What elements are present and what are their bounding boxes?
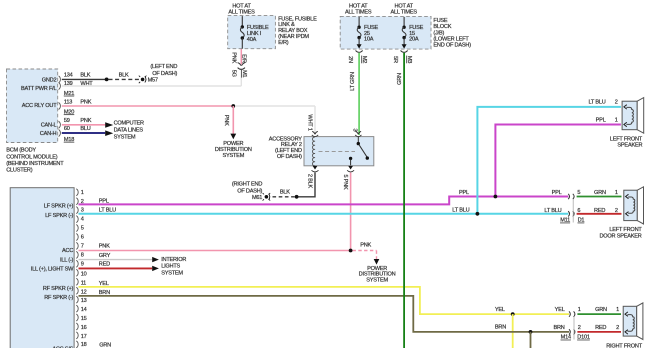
wire BLU CAN-H to computer data lines arrow (62, 126, 113, 136)
svg-text:40A: 40A (247, 37, 257, 43)
relay coil between pin 1 and pin 2 (312, 137, 315, 166)
svg-text:BLK: BLK (80, 72, 90, 78)
wire BRN drop off page (530, 332, 532, 348)
relay mechanical link (dashed) (319, 151, 356, 153)
svg-text:12: 12 (81, 289, 87, 295)
svg-text:GRN: GRN (595, 307, 607, 313)
BCM pin ACC RLY OUT (22, 100, 75, 116)
LF speaker pin 1 label (596, 117, 618, 123)
svg-text:M14: M14 (561, 335, 571, 341)
svg-text:PPL: PPL (552, 190, 562, 196)
svg-text:LF SPKR (-): LF SPKR (-) (45, 213, 73, 219)
svg-text:SYSTEM: SYSTEM (222, 153, 244, 159)
svg-text:(J/B): (J/B) (433, 30, 444, 36)
svg-text:ACC: ACC (62, 248, 73, 254)
wire GRY radio pin 8 to interior lights arrow (79, 253, 159, 263)
wire LT GRN fuse 25 to accessory relay pin 3 (350, 53, 359, 135)
power distribution system label 2 (359, 266, 396, 284)
wire PNK dashed arrow to power distribution system 2 (353, 242, 380, 264)
svg-text:OF DASH): OF DASH) (237, 189, 262, 195)
wire GRN to RF door speaker pin 1 (577, 307, 621, 314)
wire PNK connector M1 up to fusible link box (240, 49, 242, 65)
svg-text:PNK: PNK (80, 118, 91, 124)
svg-text:BRN: BRN (553, 325, 564, 331)
splice junction YEL (511, 312, 515, 316)
splice junction on BLK wire (105, 78, 109, 82)
svg-text:59: 59 (64, 118, 70, 124)
svg-text:LT GRN: LT GRN (350, 72, 356, 91)
svg-text:(RIGHT END: (RIGHT END (232, 181, 263, 187)
svg-text:ALL TIMES: ALL TIMES (228, 10, 255, 16)
radio pin 3 LF SPKR (-) (45, 207, 84, 219)
svg-text:BLOCK: BLOCK (433, 24, 451, 30)
fuse, fusible link and relay box (dashed) (228, 16, 276, 49)
svg-text:CLUSTER): CLUSTER) (6, 168, 33, 174)
svg-text:LEFT FRONT: LEFT FRONT (610, 136, 643, 142)
relay switch pin 5 contact (349, 157, 352, 160)
radio pin 14 (76, 305, 86, 313)
svg-text:M18: M18 (64, 137, 74, 143)
radio pin 13 (76, 296, 86, 304)
svg-text:RF SPKR (-): RF SPKR (-) (44, 295, 73, 301)
svg-text:M3: M3 (406, 56, 412, 63)
svg-text:134: 134 (64, 72, 73, 78)
svg-text:OF DASH): OF DASH) (277, 154, 302, 160)
svg-text:COMPUTER: COMPUTER (114, 121, 144, 127)
BCM U1 (Body Control Module) box (7, 69, 58, 143)
svg-text:M61: M61 (252, 195, 262, 201)
splice junction ACC / relay pin 5 (349, 249, 353, 253)
radio pin 9 ILL (+), LIGHT SW (31, 260, 84, 272)
svg-text:M11: M11 (560, 218, 570, 224)
radio pin 16 (76, 323, 86, 331)
in-line connector M14/D101 pin 2 (553, 317, 589, 341)
svg-text:BLU: BLU (80, 126, 90, 132)
in-line connector M11/D1 pin 6 (544, 200, 584, 224)
svg-text:ALL TIMES: ALL TIMES (391, 10, 418, 16)
BCM pin CAN-H (40, 126, 74, 143)
radio pin 11 RF SPKR (+) (43, 278, 86, 292)
radio pin 1 (76, 189, 83, 196)
svg-text:RED: RED (594, 208, 605, 214)
svg-text:18: 18 (81, 342, 87, 348)
wire RED radio pin 9 to interior lights arrow (79, 262, 159, 271)
splice junction PPL (494, 195, 498, 199)
wire BLK dashed to ground M57 (109, 72, 140, 79)
svg-text:2 BLK: 2 BLK (306, 174, 312, 189)
radio pin 2 LF SPKR (+) (44, 198, 84, 210)
splice junction ACC RLY OUT (231, 104, 235, 108)
fusible link I 40A (240, 16, 269, 49)
svg-text:17: 17 (81, 334, 87, 340)
BCM pin CAN-L (41, 118, 70, 128)
splice junction on BLK ground wire (295, 195, 299, 199)
svg-text:PNK: PNK (99, 244, 110, 250)
svg-text:1: 1 (616, 307, 619, 313)
fuse 15 20A (402, 17, 424, 49)
svg-text:15: 15 (81, 316, 87, 322)
HOT AT ALL TIMES label (fuse 15) (391, 3, 418, 15)
svg-text:1: 1 (578, 307, 581, 313)
svg-text:SYSTEM: SYSTEM (366, 277, 388, 283)
left front speaker SP1 (622, 98, 644, 134)
radio pin 15 (76, 314, 86, 322)
svg-text:HOT AT: HOT AT (349, 3, 368, 9)
svg-text:1: 1 (81, 190, 84, 196)
left front speaker label (610, 136, 643, 148)
svg-text:6: 6 (81, 235, 84, 241)
svg-text:PPL: PPL (459, 190, 469, 196)
svg-text:13: 13 (81, 298, 87, 304)
svg-text:INTERIOR: INTERIOR (161, 257, 186, 263)
fusible link box label (278, 16, 317, 46)
svg-text:ALL TIMES: ALL TIMES (345, 10, 372, 16)
svg-text:PNK: PNK (360, 242, 371, 248)
power distribution system label 1 (215, 141, 252, 159)
svg-text:2: 2 (615, 99, 618, 105)
svg-text:PNK: PNK (231, 52, 237, 63)
wire BLK relay pin 2 to ground M61 (298, 173, 315, 197)
svg-text:5: 5 (81, 226, 84, 232)
svg-text:HOT AT: HOT AT (232, 3, 251, 9)
svg-text:BATT PWR F/L: BATT PWR F/L (21, 86, 56, 92)
LF speaker pin 2 label (588, 99, 617, 105)
fuse 25 10A (357, 17, 379, 49)
wire WHT from BATT PWR F/L to connector M1 (62, 68, 242, 87)
svg-text:10A: 10A (364, 36, 374, 42)
svg-text:CAN-H: CAN-H (40, 131, 57, 137)
interior lights system label (161, 257, 186, 277)
svg-text:BRN: BRN (495, 325, 506, 331)
svg-text:DATA LINES: DATA LINES (114, 128, 144, 134)
svg-text:PPL: PPL (99, 199, 109, 205)
svg-text:4: 4 (81, 217, 84, 223)
wire BLK from GND2 (62, 72, 107, 79)
relay pin 5 exit arrow (342, 166, 354, 190)
wire YEL radio pin 11 to RF door speaker run (79, 281, 570, 314)
svg-text:60: 60 (64, 126, 70, 132)
svg-text:ILL (+), LIGHT SW: ILL (+), LIGHT SW (31, 266, 74, 272)
wire LT BLU vertical from LF speaker pin 2 (477, 107, 621, 214)
svg-text:9: 9 (81, 261, 84, 267)
wire BRN radio pin 12 to RF door speaker run (79, 290, 570, 332)
svg-text:PPL: PPL (596, 117, 606, 123)
wire LT BLU radio pin 3 to LF door speaker run (79, 207, 569, 214)
svg-text:PNK: PNK (223, 115, 229, 126)
radio pin 5 (76, 225, 83, 232)
svg-text:M57: M57 (148, 78, 158, 84)
svg-text:3: 3 (351, 129, 357, 132)
svg-text:CAN-L: CAN-L (41, 123, 57, 129)
svg-text:2: 2 (615, 208, 618, 214)
svg-text:GND2: GND2 (42, 78, 57, 84)
in-line connector M14/D101 pin 1 (555, 307, 581, 317)
radio pin 12 RF SPKR (-) (44, 287, 86, 301)
radio pin 10 (76, 269, 86, 277)
svg-text:FUSE: FUSE (433, 18, 448, 24)
svg-text:GRY: GRY (99, 253, 111, 259)
relay pin 1 connector symbol (312, 131, 318, 134)
fuse block (J/B) box dashed (340, 16, 431, 49)
svg-text:M2: M2 (361, 56, 367, 63)
wire YEL drop off page (512, 314, 514, 348)
svg-text:WHT: WHT (80, 81, 93, 87)
svg-text:GRN: GRN (594, 190, 606, 196)
svg-text:5R: 5R (392, 56, 398, 63)
svg-text:GRN: GRN (397, 73, 403, 85)
wire PPL radio pin 2 to LF door speaker run (79, 190, 569, 204)
svg-text:RF SPKR (+): RF SPKR (+) (43, 286, 74, 292)
svg-text:16: 16 (81, 325, 87, 331)
wire WHT splice to accessory relay pin 1 (235, 106, 315, 135)
wire PNK arrow to power distribution system 1 (223, 106, 236, 139)
relay switch pin 3 contact (357, 137, 359, 143)
svg-text:LF SPKR (+): LF SPKR (+) (44, 204, 74, 210)
radio pin 8 ILL (-) (60, 251, 84, 263)
svg-text:YEL: YEL (555, 307, 565, 313)
svg-text:1: 1 (615, 190, 618, 196)
wire PNK CAN-L to computer data lines arrow (62, 118, 113, 128)
HOT AT ALL TIMES label (fuse 25) (345, 3, 372, 15)
wire BLK dashed to ground M61 (270, 189, 295, 196)
accessory relay 2 K1 box (304, 137, 374, 166)
svg-text:8: 8 (81, 253, 84, 259)
splice junction BRN (529, 330, 533, 334)
svg-text:BRN: BRN (99, 290, 110, 296)
svg-text:YEL: YEL (495, 307, 505, 313)
BCM pin BATT PWR F/L (21, 81, 74, 97)
svg-text:RED: RED (99, 262, 110, 268)
svg-text:RIGHT FRONT: RIGHT FRONT (606, 344, 643, 348)
svg-text:LT BLU: LT BLU (99, 208, 116, 214)
svg-text:CONTROL MODULE): CONTROL MODULE) (6, 154, 58, 160)
svg-text:M21: M21 (64, 91, 74, 97)
svg-text:BLK: BLK (119, 72, 129, 78)
right front door speaker SP3 (623, 303, 643, 340)
svg-text:20A: 20A (409, 36, 419, 42)
wire GRN fuse 15 down off page (403, 53, 405, 348)
computer data lines system label (114, 121, 144, 141)
svg-text:RED: RED (595, 325, 606, 331)
left front door speaker SP2 (624, 187, 644, 224)
radio pin 18 GRN (52, 341, 111, 348)
svg-text:M20: M20 (64, 109, 74, 115)
wire PPL vertical from LF speaker pin 1 (495, 125, 621, 197)
svg-text:SPEAKER: SPEAKER (617, 143, 642, 149)
svg-text:11: 11 (81, 280, 86, 286)
BCM pin GND2 (42, 72, 73, 83)
splice junction LT BLU (476, 212, 480, 216)
ground point M57 (139, 64, 178, 84)
right front door speaker label (606, 344, 643, 348)
wire RED to LF door speaker pin 2 (577, 208, 622, 214)
left front door speaker label (599, 227, 642, 239)
wire PNK ACC RLY OUT from BCM to splice (62, 100, 234, 106)
svg-text:D101: D101 (577, 335, 590, 341)
svg-text:LT BLU: LT BLU (452, 207, 469, 213)
svg-text:YEL: YEL (99, 281, 109, 287)
radio pin 6 (76, 234, 83, 241)
svg-text:5: 5 (577, 190, 580, 196)
svg-text:2: 2 (578, 325, 581, 331)
svg-text:WHT 1: WHT 1 (307, 114, 313, 130)
svg-text:ACC RLY OUT: ACC RLY OUT (22, 103, 57, 109)
svg-text:LT BLU: LT BLU (544, 208, 561, 214)
accessory relay 2 label (269, 136, 303, 160)
wire PNK relay pin 5 down to ACC splice (350, 173, 352, 251)
svg-text:OF DASH): OF DASH) (152, 71, 177, 77)
wire PNK ACC from radio pin 7 (79, 244, 351, 251)
radio pin 17 (76, 332, 86, 340)
connector 5R / M3 below fuse 15 (392, 51, 412, 64)
svg-text:LT BLU: LT BLU (588, 99, 605, 105)
wire RED to RF door speaker pin 2 (577, 325, 621, 332)
svg-text:(LEFT END: (LEFT END (150, 64, 177, 70)
svg-text:(BEHIND INSTRUMENT: (BEHIND INSTRUMENT (6, 161, 64, 167)
radio pin 4 (76, 216, 83, 223)
HOT AT ALL TIMES label (fusible link) (228, 3, 255, 15)
svg-text:BLK: BLK (280, 189, 290, 195)
svg-text:2: 2 (616, 325, 619, 331)
radio unit U2 box (10, 188, 74, 348)
svg-text:BCM (BODY: BCM (BODY (6, 148, 36, 154)
relay pin 2 exit arrow (306, 166, 318, 189)
svg-text:10: 10 (81, 271, 87, 277)
BCM label text (6, 148, 64, 174)
svg-text:END OF DASH): END OF DASH) (433, 42, 471, 48)
svg-text:113: 113 (64, 100, 72, 106)
svg-text:SYSTEM: SYSTEM (161, 270, 183, 276)
wire GRN to LF door speaker pin 1 (577, 190, 622, 196)
svg-text:5G: 5G (231, 70, 237, 77)
svg-text:1: 1 (615, 117, 618, 123)
svg-text:14: 14 (81, 307, 87, 313)
svg-text:ILL (-): ILL (-) (60, 257, 74, 263)
svg-text:M1: M1 (241, 70, 247, 77)
svg-text:HOT AT: HOT AT (395, 3, 414, 9)
svg-text:5 PNK: 5 PNK (342, 174, 348, 190)
fuse block label (433, 18, 471, 49)
ground point M61 (232, 181, 270, 201)
svg-text:GRN: GRN (99, 342, 111, 348)
svg-text:2N: 2N (347, 56, 353, 63)
svg-text:E/R): E/R) (278, 40, 289, 46)
svg-text:D1: D1 (578, 218, 585, 224)
svg-text:LIGHTS: LIGHTS (161, 264, 180, 270)
in-line connector M11/D1 pin 5 (552, 190, 581, 199)
svg-text:LEFT FRONT: LEFT FRONT (609, 227, 642, 233)
connector 2N / M2 below fuse 25 (347, 51, 367, 64)
radio pin 7 ACC (62, 242, 84, 254)
in-line connector M1 / E-R (5G) (231, 52, 247, 77)
svg-text:PNK: PNK (80, 100, 91, 106)
relay switch blade (359, 145, 367, 157)
relay pin 3 connector symbol (356, 131, 362, 134)
svg-text:SYSTEM: SYSTEM (114, 134, 136, 140)
svg-text:DOOR SPEAKER: DOOR SPEAKER (599, 233, 641, 239)
svg-text:7: 7 (81, 244, 84, 250)
